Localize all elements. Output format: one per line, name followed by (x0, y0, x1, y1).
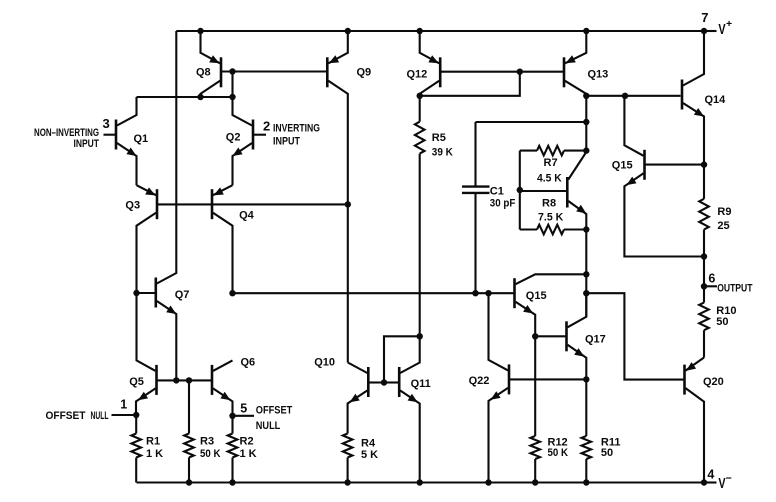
svg-text:R2: R2 (240, 435, 254, 447)
svg-text:R7: R7 (544, 157, 558, 169)
svg-text:R4: R4 (361, 438, 376, 450)
svg-text:Q9: Q9 (357, 67, 372, 79)
svg-text:Q6: Q6 (241, 357, 256, 369)
svg-text:Q1: Q1 (134, 133, 149, 145)
svg-text:Q12: Q12 (407, 69, 428, 81)
svg-text:NULL: NULL (91, 410, 109, 422)
svg-text:Q20: Q20 (703, 376, 724, 388)
svg-text:4: 4 (707, 467, 714, 481)
svg-text:50 K: 50 K (548, 447, 569, 459)
svg-text:Q11: Q11 (411, 378, 431, 390)
svg-text:Q22: Q22 (469, 375, 490, 387)
svg-text:R9: R9 (717, 206, 731, 218)
svg-text:R3: R3 (200, 435, 214, 447)
svg-text:7: 7 (701, 10, 708, 25)
svg-text:5: 5 (240, 402, 247, 416)
svg-text:Q10: Q10 (314, 357, 335, 369)
svg-text:−: − (726, 472, 732, 484)
svg-text:R1: R1 (146, 435, 160, 447)
svg-text:R8: R8 (542, 198, 556, 210)
svg-text:50: 50 (716, 316, 728, 328)
svg-text:OFFSET: OFFSET (256, 404, 293, 416)
svg-text:INPUT: INPUT (74, 138, 100, 150)
svg-text:6: 6 (708, 271, 715, 285)
svg-text:OUTPUT: OUTPUT (717, 282, 753, 294)
svg-text:+: + (726, 18, 732, 30)
svg-text:V: V (718, 475, 725, 492)
svg-text:INPUT: INPUT (273, 136, 300, 148)
svg-text:Q7: Q7 (175, 289, 190, 301)
svg-text:1 K: 1 K (240, 448, 257, 460)
svg-text:Q5: Q5 (129, 376, 144, 388)
svg-text:R5: R5 (432, 132, 446, 144)
svg-text:30 pF: 30 pF (490, 198, 516, 210)
svg-text:Q2: Q2 (226, 132, 241, 144)
svg-text:5 K: 5 K (361, 449, 378, 461)
svg-text:2: 2 (263, 119, 270, 134)
svg-text:1 K: 1 K (146, 448, 163, 460)
svg-text:Q15: Q15 (526, 290, 547, 302)
svg-text:Q17: Q17 (585, 333, 606, 345)
svg-text:3: 3 (103, 116, 110, 131)
svg-text:39 K: 39 K (432, 147, 453, 159)
svg-text:Q3: Q3 (125, 200, 140, 212)
svg-text:Q14: Q14 (705, 94, 727, 106)
svg-text:1: 1 (120, 398, 127, 412)
svg-text:Q8: Q8 (196, 67, 211, 79)
svg-text:4.5 K: 4.5 K (537, 172, 562, 184)
svg-text:50 K: 50 K (200, 448, 221, 460)
svg-text:7.5 K: 7.5 K (538, 212, 563, 224)
svg-text:Q15: Q15 (612, 159, 633, 171)
svg-text:C1: C1 (490, 186, 504, 198)
svg-text:NULL: NULL (256, 420, 281, 432)
svg-text:Q4: Q4 (239, 209, 255, 221)
svg-text:V: V (718, 21, 725, 38)
svg-text:OFFSET: OFFSET (46, 410, 86, 422)
svg-text:50: 50 (601, 447, 613, 459)
svg-text:25: 25 (717, 220, 729, 232)
svg-text:Q13: Q13 (588, 69, 609, 81)
svg-text:INVERTING: INVERTING (273, 122, 320, 134)
